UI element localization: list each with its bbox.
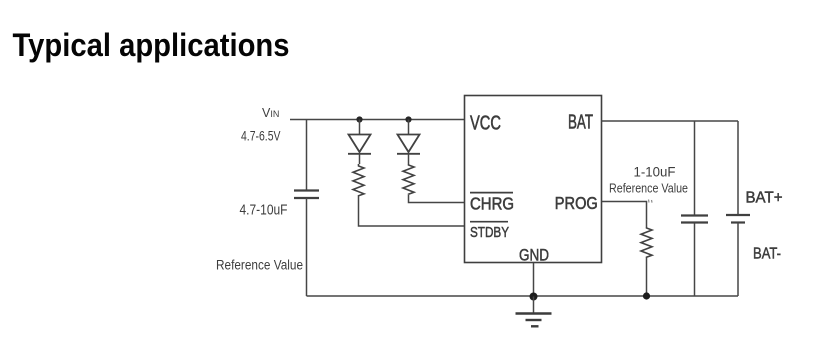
LED D1 bbox=[348, 120, 371, 165]
wire battery negative to ground rail bbox=[737, 223, 739, 297]
svg-text:1-10uF: 1-10uF bbox=[634, 164, 676, 180]
resistor R3 bbox=[641, 227, 652, 258]
title Typical applications bbox=[13, 27, 290, 63]
svg-text:STDBY: STDBY bbox=[470, 224, 509, 241]
op-amp U1 charger IC body bbox=[465, 96, 602, 263]
svg-text:4.7-10uF: 4.7-10uF bbox=[240, 203, 288, 219]
node label VIN bbox=[262, 106, 279, 120]
pin label BAT bbox=[568, 112, 593, 134]
wire BAT rail to C2 top bbox=[694, 121, 696, 216]
capacitor C2 1-10uF bbox=[681, 216, 708, 223]
wire BAT rail to battery positive bbox=[737, 121, 739, 215]
ground symbol bbox=[516, 297, 552, 327]
value label Reference Value left bbox=[216, 258, 303, 273]
pin label GND bbox=[519, 246, 549, 264]
svg-text:Reference Value: Reference Value bbox=[216, 258, 303, 273]
pin label PROG bbox=[555, 193, 598, 213]
svg-text:4.7-6.5V: 4.7-6.5V bbox=[241, 128, 281, 144]
wire BAT rail bbox=[602, 120, 739, 122]
LED D2 bbox=[397, 120, 420, 165]
svg-text:PROG: PROG bbox=[555, 193, 598, 213]
svg-text:BAT: BAT bbox=[568, 112, 593, 134]
value label 1-10uF bbox=[634, 164, 676, 180]
node junction at D1 anode bbox=[356, 116, 362, 122]
value label 4.7-6.5V bbox=[241, 128, 281, 144]
wire C2 bottom to ground rail bbox=[694, 223, 696, 297]
pin label VCC bbox=[470, 113, 501, 135]
svg-text:VCC: VCC bbox=[470, 113, 501, 135]
wire left rail to C1 top bbox=[306, 120, 308, 191]
svg-text:VIN: VIN bbox=[262, 106, 279, 120]
wire R1 to STDBY pin bbox=[359, 196, 465, 226]
wire GND pin to ground rail bbox=[533, 263, 535, 297]
node label BAT- bbox=[753, 246, 781, 263]
wire R3 to ground rail bbox=[646, 258, 648, 296]
capacitor C1 4.7-10uF bbox=[294, 191, 319, 199]
node junction R3 ground rail bbox=[643, 292, 650, 299]
resistor R1 bbox=[353, 164, 364, 196]
node junction at D2 anode bbox=[405, 116, 411, 122]
node junction GND ground rail bbox=[530, 293, 538, 301]
svg-text:Typical applications: Typical applications bbox=[13, 27, 290, 63]
resistor R2 bbox=[403, 164, 414, 195]
pin label CHRG with overline bbox=[470, 193, 514, 214]
svg-text:Reference Value: Reference Value bbox=[609, 182, 688, 196]
wire R2 to CHRG pin bbox=[409, 195, 465, 203]
svg-text:CHRG: CHRG bbox=[470, 194, 514, 214]
battery BT1 bbox=[726, 215, 750, 223]
svg-text:GND: GND bbox=[519, 246, 549, 264]
node label BAT+ bbox=[746, 189, 783, 206]
value label 4.7-10uF bbox=[240, 203, 288, 219]
pin label STDBY with overline bbox=[470, 222, 509, 242]
svg-text:BAT-: BAT- bbox=[753, 246, 781, 263]
node tick artifact at PROG corner bbox=[649, 200, 653, 203]
wire PROG pin to R3 bbox=[602, 202, 647, 228]
svg-text:BAT+: BAT+ bbox=[746, 189, 783, 206]
value label Reference Value right bbox=[609, 182, 688, 196]
wire bottom ground rail bbox=[307, 295, 739, 297]
wire C1 bottom to ground rail bbox=[306, 198, 308, 296]
wire top rail VIN to VCC bbox=[290, 119, 465, 121]
